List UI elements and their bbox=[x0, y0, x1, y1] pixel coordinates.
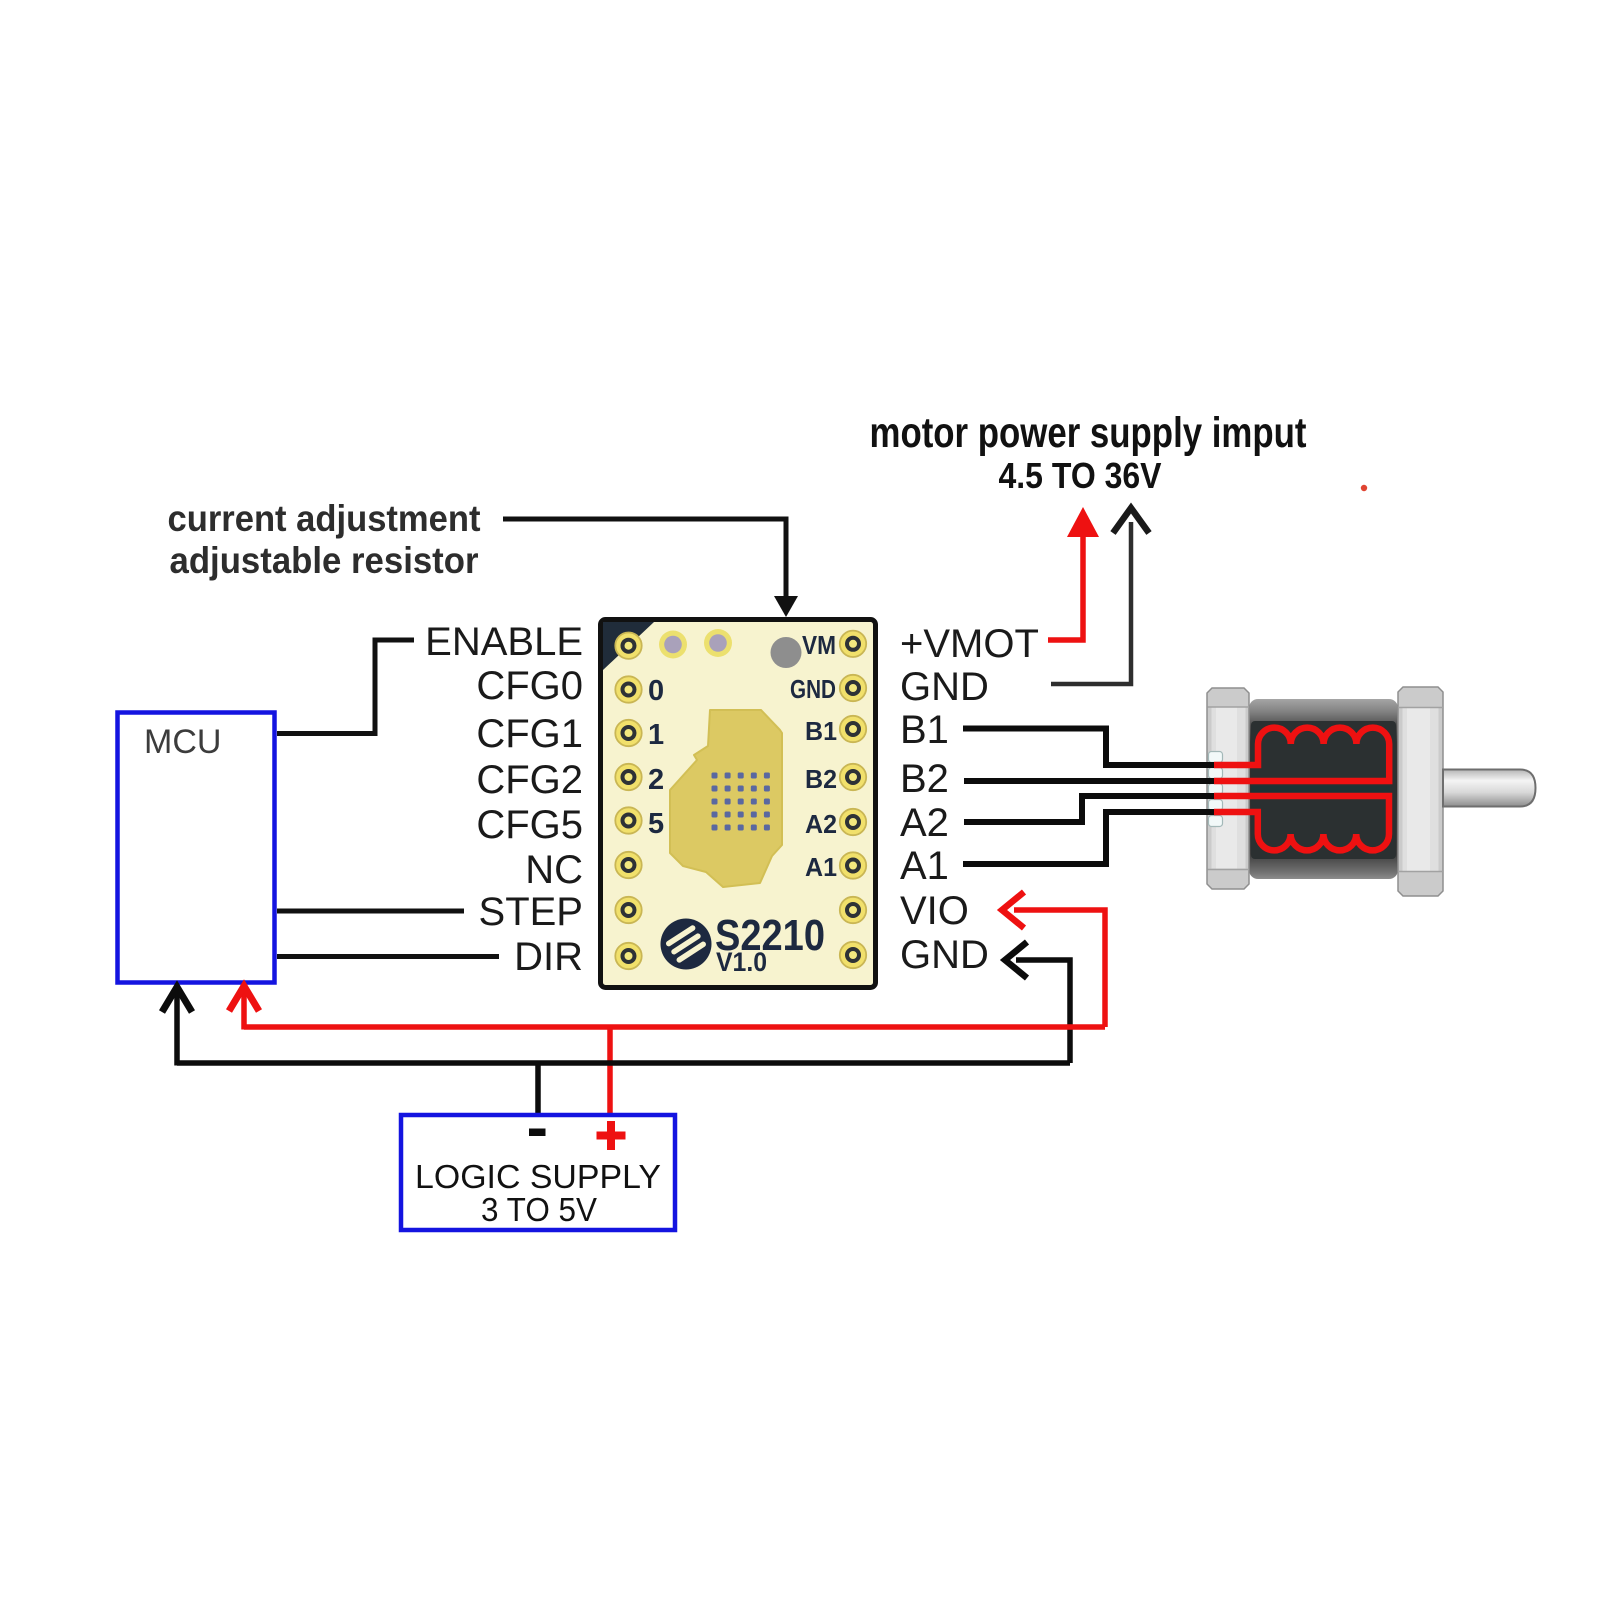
svg-text:VM: VM bbox=[802, 630, 836, 660]
wire: STEP from MCU bbox=[277, 909, 464, 914]
label: minus terminal bbox=[529, 1129, 546, 1137]
svg-text:V1.0: V1.0 bbox=[716, 947, 767, 977]
wire: B2 to motor bbox=[964, 778, 1215, 784]
svg-text:NC: NC bbox=[525, 848, 583, 892]
LOGIC SUPPLY box bbox=[401, 1115, 675, 1230]
terminal tabs on flange bbox=[1209, 752, 1223, 827]
svg-text:CFG2: CFG2 bbox=[476, 758, 583, 802]
svg-text:B2: B2 bbox=[900, 757, 949, 801]
wire: VIO red from logic supply bbox=[1014, 910, 1105, 1027]
svg-text:B2: B2 bbox=[805, 764, 837, 794]
svg-text:CFG1: CFG1 bbox=[476, 712, 583, 756]
arrowhead red up into MCU bbox=[229, 986, 259, 1030]
svg-text:1: 1 bbox=[648, 719, 664, 751]
wire: DIR from MCU bbox=[277, 954, 499, 959]
svg-text:CFG0: CFG0 bbox=[476, 664, 583, 708]
arrowhead black left chevron bbox=[1005, 942, 1027, 978]
right flange bbox=[1398, 687, 1443, 896]
svg-text:LOGIC SUPPLY: LOGIC SUPPLY bbox=[415, 1158, 661, 1195]
svg-text:GND: GND bbox=[900, 665, 989, 709]
shaft bbox=[1443, 770, 1536, 807]
coil winding B bbox=[1214, 728, 1389, 781]
wire: A1 to motor bbox=[963, 812, 1215, 864]
motor body bbox=[1249, 699, 1398, 879]
node: stray red dot bbox=[1361, 485, 1367, 491]
label: current adjustment text bbox=[168, 498, 481, 581]
svg-text:current adjustment: current adjustment bbox=[168, 498, 481, 539]
svg-text:STEP: STEP bbox=[479, 890, 583, 934]
arrowhead red up bbox=[1067, 507, 1099, 537]
corner triangle bbox=[603, 622, 654, 670]
right pad column bbox=[840, 631, 866, 969]
wire: black drop to logic supply - bbox=[535, 1063, 541, 1113]
wire: current adjustment pointer bbox=[503, 519, 786, 600]
svg-text:B1: B1 bbox=[805, 716, 837, 746]
arrowhead red left chevron bbox=[1002, 892, 1024, 928]
svg-text:A2: A2 bbox=[805, 809, 837, 839]
svg-text:+VMOT: +VMOT bbox=[900, 622, 1039, 666]
wire: red logic bus bbox=[244, 1024, 1105, 1030]
wire: +VMOT red to supply bbox=[1048, 524, 1083, 640]
svg-text:A1: A1 bbox=[900, 844, 949, 888]
svg-text:GND: GND bbox=[790, 674, 836, 704]
svg-text:4.5 TO 36V: 4.5 TO 36V bbox=[999, 455, 1162, 496]
left pad column bbox=[615, 633, 641, 970]
label: motor power supply text bbox=[870, 409, 1307, 496]
board pads and silk (drawn above wires) bbox=[615, 629, 866, 977]
wire: GND red from logic supply bbox=[1016, 960, 1070, 1063]
svg-text:5: 5 bbox=[648, 808, 664, 840]
left flange bbox=[1207, 688, 1249, 889]
svg-text:A1: A1 bbox=[805, 852, 837, 882]
svg-text:VIO: VIO bbox=[900, 889, 969, 933]
arrowhead black up into MCU bbox=[162, 987, 192, 1066]
svg-text:motor power supply imput: motor power supply imput bbox=[870, 409, 1307, 457]
central copper polygon bbox=[670, 710, 782, 887]
coil winding A bbox=[1214, 796, 1389, 850]
svg-text:ENABLE: ENABLE bbox=[425, 620, 583, 664]
stepper motor M1 chassis bbox=[1207, 687, 1536, 896]
arrowhead down onto board bbox=[774, 596, 798, 617]
stepper motor coil windings bbox=[1214, 728, 1389, 851]
svg-text:MCU: MCU bbox=[144, 723, 221, 761]
wire: B1 to motor bbox=[963, 729, 1215, 766]
component pads lavender bbox=[659, 629, 732, 659]
svg-text:B1: B1 bbox=[900, 708, 949, 752]
teal gap between phase bars bbox=[1251, 786, 1390, 794]
label: left pin names bbox=[425, 620, 583, 979]
potentiometer bbox=[771, 637, 802, 668]
board outline bbox=[601, 620, 876, 988]
svg-text:DIR: DIR bbox=[514, 935, 583, 979]
label: plus terminal bbox=[597, 1121, 626, 1150]
label: LOGIC SUPPLY text bbox=[415, 1158, 661, 1228]
driver board S2210 bbox=[601, 620, 876, 988]
svg-text:A2: A2 bbox=[900, 801, 949, 845]
svg-text:GND: GND bbox=[900, 933, 989, 977]
wire: ENABLE from MCU bbox=[277, 640, 414, 734]
svg-text:3 TO 5V: 3 TO 5V bbox=[481, 1191, 597, 1228]
svg-text:adjustable resistor: adjustable resistor bbox=[170, 540, 479, 581]
via dot grid bbox=[712, 773, 770, 831]
wire: black logic bus bbox=[177, 1060, 1070, 1066]
label: right pin names bbox=[900, 622, 1039, 977]
silk: 0 1 2 5 bbox=[648, 675, 664, 840]
wire: GND black to supply bbox=[1051, 522, 1131, 684]
svg-text:2: 2 bbox=[648, 764, 664, 796]
arrowhead black up chevron bbox=[1113, 508, 1149, 533]
svg-text:0: 0 bbox=[648, 675, 664, 707]
MCU box U1 bbox=[118, 713, 275, 983]
logo icon bbox=[661, 919, 712, 970]
wire: red drop to logic supply + bbox=[607, 1027, 613, 1113]
wire: A2 to motor bbox=[964, 796, 1215, 822]
silk: VM GND B1 B2 A2 A1 bbox=[790, 630, 837, 882]
svg-text:CFG5: CFG5 bbox=[476, 803, 583, 847]
